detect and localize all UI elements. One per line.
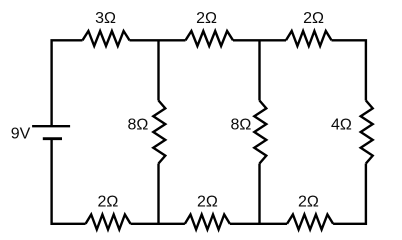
- battery B1 long plate (positive): [32, 125, 70, 127]
- resistor R6 2ohm bottom-right: [287, 215, 333, 230]
- svg-text:3Ω: 3Ω: [95, 10, 116, 27]
- wire bottom between R5 and R6: [230, 223, 287, 225]
- wire node junction 1 top: [157, 40, 159, 100]
- resistor R2 2ohm: [186, 31, 234, 46]
- svg-text:2Ω: 2Ω: [298, 193, 319, 210]
- resistor R9 8ohm vertical middle: [254, 101, 266, 164]
- resistor R8 8ohm vertical left: [153, 101, 165, 164]
- wire top between R2 and R3: [233, 39, 286, 41]
- wire bottom-left corner: [52, 140, 86, 224]
- wire junction 2 bottom: [258, 164, 260, 224]
- svg-text:2Ω: 2Ω: [197, 193, 218, 210]
- wire top between R1 and R2: [130, 39, 186, 41]
- resistor R3 2ohm: [286, 31, 332, 46]
- wire node junction 2 top: [258, 40, 260, 100]
- svg-text:8Ω: 8Ω: [127, 116, 148, 133]
- wire top-left corner from battery to R1: [52, 40, 83, 127]
- wire junction 1 bottom: [157, 164, 159, 224]
- svg-text:4Ω: 4Ω: [331, 116, 352, 133]
- resistor R4 2ohm bottom-left: [86, 215, 131, 230]
- svg-text:2Ω: 2Ω: [303, 10, 324, 27]
- battery B1 short plate (negative): [43, 137, 62, 140]
- wire bottom between R4 and R5: [131, 223, 185, 225]
- svg-text:9V: 9V: [11, 125, 31, 142]
- resistor R1 3ohm: [83, 31, 130, 46]
- resistor R7 4ohm vertical right: [361, 101, 373, 164]
- svg-text:2Ω: 2Ω: [196, 10, 217, 27]
- resistor R5 2ohm bottom-middle: [185, 215, 230, 230]
- svg-text:2Ω: 2Ω: [97, 193, 118, 210]
- svg-text:8Ω: 8Ω: [230, 116, 251, 133]
- wire right-bottom corner: [333, 164, 366, 224]
- wire top-right corner: [332, 40, 366, 100]
